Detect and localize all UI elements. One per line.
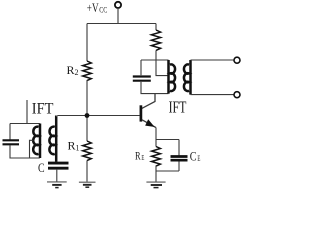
wire right tank cap branch upper xyxy=(140,60,142,75)
wire top rail xyxy=(87,23,156,25)
svg-text:IFT: IFT xyxy=(32,100,54,117)
resistor R1 xyxy=(83,141,92,161)
capacitor CE xyxy=(171,157,188,161)
svg-text:R1: R1 xyxy=(68,139,80,153)
wire input stub xyxy=(26,100,28,124)
ground (emitter) xyxy=(146,182,165,188)
wire base wire xyxy=(58,115,140,117)
svg-text:CC: CC xyxy=(99,6,107,15)
transistor Q1 emitter arrow xyxy=(146,120,154,126)
wire right tank cap branch lower + bottom rail xyxy=(141,82,169,94)
capacitor C (tank) xyxy=(3,140,20,144)
resistor R3 (collector feed) xyxy=(151,30,160,50)
capacitor C bypass xyxy=(48,163,69,168)
wire right tank top rail xyxy=(141,59,169,61)
node output terminal top xyxy=(234,57,240,63)
wire R2 to junction xyxy=(86,80,88,116)
resistor RE xyxy=(152,147,161,167)
wire secondary to bottom output xyxy=(191,94,234,96)
inductor right IFT primary xyxy=(169,60,176,94)
wire rail to RE xyxy=(155,140,157,147)
svg-text:IFT: IFT xyxy=(169,98,187,117)
capacitor right tank xyxy=(133,77,151,81)
wire resistor to tap (crosses tank top rail) xyxy=(156,50,169,75)
wire RE to bottom rail xyxy=(155,166,157,172)
wire Vcc stem xyxy=(117,8,119,24)
wire bypass cap to ground xyxy=(56,170,58,182)
node junction dot xyxy=(85,113,90,118)
wire collector stub xyxy=(142,94,155,109)
svg-text:C: C xyxy=(190,148,197,163)
svg-text:C: C xyxy=(38,160,45,175)
inductor left IFT primary xyxy=(33,124,40,159)
wire left tank left branch upper xyxy=(9,124,11,140)
wire CE branch upper xyxy=(178,140,180,156)
node output terminal bottom xyxy=(234,92,240,98)
wire junction to R1 xyxy=(86,116,88,142)
svg-text:R: R xyxy=(135,151,141,163)
wire primary tap xyxy=(30,140,34,158)
wire R1 to ground xyxy=(86,161,88,182)
wire RE/CE top rail xyxy=(156,139,179,141)
wire emitter down xyxy=(155,128,157,140)
wire secondary top turn xyxy=(56,116,58,118)
svg-text:+V: +V xyxy=(87,0,99,15)
svg-text:E: E xyxy=(141,153,144,162)
wire left tank top rail xyxy=(10,123,40,125)
wire emitter ground stem xyxy=(155,171,157,182)
node +Vcc terminal xyxy=(115,2,121,8)
inductor left IFT secondary xyxy=(49,116,56,162)
svg-text:E: E xyxy=(197,154,200,163)
svg-text:R2: R2 xyxy=(67,63,79,77)
wire CE branch lower xyxy=(178,162,180,172)
wire secondary to top output xyxy=(191,59,234,61)
ground (R1) xyxy=(79,182,96,187)
transistor Q1 base bar xyxy=(140,105,143,121)
wire rail to collector resistor xyxy=(155,24,157,31)
wire rail to R2 xyxy=(86,24,88,62)
resistor R2 xyxy=(83,61,92,81)
ground (bypass C) xyxy=(47,182,67,188)
wire RE/CE bottom rail xyxy=(156,170,179,172)
wire left tank left branch lower xyxy=(10,145,40,158)
inductor right IFT secondary xyxy=(184,60,191,95)
transistor Q1 emitter xyxy=(142,120,156,128)
